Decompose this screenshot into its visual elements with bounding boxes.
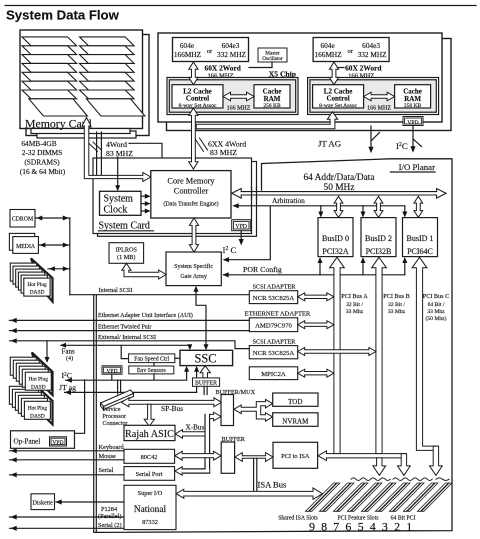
diskette wire xyxy=(56,501,124,503)
ISA Bus channel xyxy=(176,488,322,500)
6XX bus horizontal channel from card2 xyxy=(196,112,338,129)
svg-text:BusID 1: BusID 1 xyxy=(407,234,434,243)
adapter arrow AMD to PCI A xyxy=(298,321,334,329)
svg-text:Serial Port: Serial Port xyxy=(136,471,163,478)
DIMM slat col1 row1 xyxy=(22,37,77,46)
bus arrow 50MHz to BusID 1 xyxy=(414,196,423,217)
DASD stack 1 xyxy=(10,263,36,281)
SP-Bus channel xyxy=(121,398,221,407)
system card front xyxy=(93,158,252,234)
DIMM slat col1 row4 xyxy=(22,63,77,72)
svg-text:4: 4 xyxy=(370,520,376,534)
DASD stack 3 flag xyxy=(32,382,53,424)
Diskette box xyxy=(31,494,55,510)
IPLROS box xyxy=(109,243,144,264)
svg-text:PCI Bus A: PCI Bus A xyxy=(341,293,368,300)
arbitration drops to BusID boxes xyxy=(320,206,322,215)
svg-text:33 Mhz: 33 Mhz xyxy=(388,309,406,315)
svg-text:2: 2 xyxy=(394,520,400,534)
L2 Cache Control box card1 xyxy=(172,85,223,108)
svg-text:166 MHZ: 166 MHZ xyxy=(348,73,374,80)
slot drop arrow C xyxy=(430,446,443,475)
svg-text:CDROM: CDROM xyxy=(12,217,33,223)
svg-text:System Specific: System Specific xyxy=(174,263,213,270)
slot 5 xyxy=(362,483,393,511)
svg-text:64MB-4GB: 64MB-4GB xyxy=(21,139,56,148)
Internal SCSI wire xyxy=(70,294,250,296)
I/O Planar box xyxy=(95,159,452,533)
wire 60X-2 label stub xyxy=(339,67,345,69)
60X bus arrow card2 xyxy=(329,62,338,85)
DIMM slat col1 bottom xyxy=(29,99,88,116)
POR risers into BusID boxes xyxy=(319,260,321,275)
svg-text:National: National xyxy=(134,505,167,515)
svg-text:Mouse: Mouse xyxy=(99,453,117,460)
serial2 wire xyxy=(10,527,125,529)
CPU box card2 604e/604e3 xyxy=(313,38,389,62)
VPD box on processor card xyxy=(403,117,423,126)
166 MHZ cache bus arrow card1 xyxy=(223,92,254,101)
VPD box (op-panel) xyxy=(50,437,67,446)
svg-text:MEDIA: MEDIA xyxy=(16,244,36,250)
svg-text:Service: Service xyxy=(103,407,121,413)
svg-text:Super I/O: Super I/O xyxy=(138,490,163,497)
svg-text:166 MHZ: 166 MHZ xyxy=(367,105,391,111)
memory bus 4Word channel to CMC xyxy=(82,118,151,182)
svg-text:604e3: 604e3 xyxy=(222,41,240,50)
adapter arrow NCR1 to PCI A xyxy=(298,293,334,301)
svg-text:(SDRAMS): (SDRAMS) xyxy=(24,157,60,166)
svg-text:Arbitration: Arbitration xyxy=(272,196,305,205)
svg-text:Core Memory: Core Memory xyxy=(167,177,215,186)
svg-text:NCR 53C825A: NCR 53C825A xyxy=(253,295,295,302)
DIMM slat col2 row7 xyxy=(80,90,135,99)
slot 3 xyxy=(390,483,421,511)
system card edges crossing bus xyxy=(251,187,253,200)
svg-text:or: or xyxy=(207,48,213,55)
adapter arrow NCR2 to PCI B xyxy=(298,348,376,356)
System Clock to CMC arrows xyxy=(141,195,148,197)
svg-text:604e3: 604e3 xyxy=(362,41,380,50)
keyboard wire xyxy=(10,450,125,452)
env sensor wires xyxy=(153,363,155,366)
svg-text:System Data Flow: System Data Flow xyxy=(6,8,120,23)
svg-text:8-way Set Assoc: 8-way Set Assoc xyxy=(319,103,357,109)
Fan Speed Ctrl box xyxy=(129,354,175,363)
SP-Bus drop to Rajah xyxy=(144,404,154,426)
PCI bottom horizontal channel xyxy=(318,451,406,461)
Super I/O box xyxy=(124,485,176,529)
JT AG wire xyxy=(370,126,372,150)
fan speed ctrl to SSC stub xyxy=(175,357,180,359)
svg-text:DASD: DASD xyxy=(30,413,45,419)
svg-text:33 Mhz: 33 Mhz xyxy=(346,309,364,315)
svg-text:7: 7 xyxy=(333,520,339,534)
adapter arrow MPIC2A to PCI A xyxy=(298,369,334,377)
Core Memory Controller box xyxy=(151,171,231,218)
svg-text:ETHERNET ADAPTER: ETHERNET ADAPTER xyxy=(245,311,311,318)
DASD1 wire xyxy=(48,268,70,270)
IPLROS to gate array elbow arrow xyxy=(122,263,166,279)
NVRAM box xyxy=(273,413,318,427)
svg-text:(1 MB): (1 MB) xyxy=(117,254,135,261)
svg-text:Control: Control xyxy=(326,95,349,103)
svg-text:Serial: Serial xyxy=(99,467,114,474)
DIMM slat col2 row3 xyxy=(80,55,135,64)
NCR 53C825A box 1 xyxy=(249,291,297,304)
svg-text:PCI Bus B: PCI Bus B xyxy=(383,293,409,300)
svg-text:Gate Array: Gate Array xyxy=(180,274,207,280)
svg-text:60X 2Word: 60X 2Word xyxy=(345,63,382,72)
peripheral bus vertical xyxy=(69,218,71,295)
svg-text:I2 C: I2 C xyxy=(223,245,237,255)
service processor connector bar xyxy=(101,390,134,407)
DIMM slat col2 row4 xyxy=(80,63,135,72)
wire 4Word label right xyxy=(129,143,162,157)
DIMM slat col2 row1 xyxy=(80,37,135,46)
svg-text:Env Sensors: Env Sensors xyxy=(137,368,167,374)
svg-text:2-32 DIMMS: 2-32 DIMMS xyxy=(22,148,62,157)
DIMM slat col2 row6 xyxy=(80,81,135,90)
DASD stack 2 xyxy=(10,357,36,375)
Env Sensors box xyxy=(129,366,174,374)
system card shadow xyxy=(98,162,257,237)
svg-text:(Data Transfer Engine): (Data Transfer Engine) xyxy=(163,201,218,208)
svg-text:ISA Bus: ISA Bus xyxy=(258,480,288,490)
svg-text:332 MHZ: 332 MHZ xyxy=(358,50,388,59)
I2C wire from VPD xyxy=(412,126,414,150)
memory bus leg 2 (back card) xyxy=(96,132,98,175)
X-Bus to 80C42 / BUFFER channel xyxy=(175,451,221,460)
svg-text:Diskette: Diskette xyxy=(33,501,54,507)
svg-text:BUFFER: BUFFER xyxy=(195,381,217,387)
slot drop arrow right end xyxy=(398,454,411,476)
svg-text:SP-Bus: SP-Bus xyxy=(161,404,183,413)
svg-text:Fan Speed Ctrl: Fan Speed Ctrl xyxy=(134,356,169,362)
svg-text:System: System xyxy=(104,194,134,205)
svg-text:PCI Bus C: PCI Bus C xyxy=(423,293,449,300)
serial wire xyxy=(10,474,125,476)
master oscillator box xyxy=(258,48,287,62)
svg-text:IPLROS: IPLROS xyxy=(116,246,138,253)
X-Bus to Serial Port elbow xyxy=(175,467,182,476)
Rajah ASIC box xyxy=(124,425,175,440)
svg-text:Rajah ASIC: Rajah ASIC xyxy=(125,429,174,440)
BUFFER to SSC arrow xyxy=(200,366,210,378)
svg-text:RAM: RAM xyxy=(404,95,421,103)
svg-text:VPD: VPD xyxy=(52,440,63,446)
slot 6 xyxy=(348,483,379,511)
wires I2C line down to service processor connector xyxy=(117,380,119,394)
External/Internal SCSI wire xyxy=(10,341,250,349)
svg-text:(4): (4) xyxy=(66,355,73,362)
X-Bus to Rajah arrow xyxy=(175,430,205,439)
svg-text:JT ag: JT ag xyxy=(59,383,76,392)
PCI to ISA box xyxy=(273,442,318,468)
X5 chip module card1 xyxy=(167,78,298,115)
slot 4 xyxy=(376,483,407,511)
svg-text:32 Bit /: 32 Bit / xyxy=(388,302,405,308)
svg-text:83 MHZ: 83 MHZ xyxy=(210,148,237,157)
CMC to gate array arrow xyxy=(189,218,198,252)
X-Bus to BUFFER/MUX arrow xyxy=(210,412,221,421)
svg-text:80C42: 80C42 xyxy=(141,454,158,461)
bus arrow 50MHz to BusID 2 xyxy=(374,196,383,217)
svg-text:256 KB: 256 KB xyxy=(263,103,281,109)
svg-text:JT AG: JT AG xyxy=(318,139,342,149)
svg-text:Hot Plug: Hot Plug xyxy=(27,282,47,288)
svg-text:332 MHZ: 332 MHZ xyxy=(217,50,247,59)
svg-text:NVRAM: NVRAM xyxy=(282,418,309,426)
svg-text:60X 2Word: 60X 2Word xyxy=(205,63,242,72)
I2C wire arbitration to gate array xyxy=(225,207,270,260)
svg-text:I2C: I2C xyxy=(396,141,408,151)
DIMM slat col2 row2 xyxy=(80,46,135,55)
svg-text:DASD: DASD xyxy=(31,384,46,390)
svg-text:NCR 53C825A: NCR 53C825A xyxy=(253,350,295,357)
BUFFER/MUX box xyxy=(221,395,234,426)
svg-text:BusID 2: BusID 2 xyxy=(365,234,392,243)
svg-text:BusID 0: BusID 0 xyxy=(322,234,349,243)
L2 Cache Control box card2 xyxy=(313,85,364,108)
BusID 2 PCI32B box xyxy=(361,218,396,257)
svg-text:8: 8 xyxy=(321,520,327,534)
Ethernet Twisted Pair wire xyxy=(10,330,250,332)
slot 2 xyxy=(404,483,435,511)
svg-text:256 KB: 256 KB xyxy=(404,103,422,109)
svg-text:3: 3 xyxy=(382,520,388,534)
svg-text:TOD: TOD xyxy=(288,398,302,406)
MPIC2A box xyxy=(249,367,297,380)
6XX bus vertical arrow into CMC xyxy=(189,108,198,169)
top rule xyxy=(5,5,476,7)
svg-text:Processor: Processor xyxy=(103,414,126,420)
svg-text:Clock: Clock xyxy=(104,205,128,216)
X5 chip module card2 xyxy=(308,78,439,115)
svg-text:X-Bus: X-Bus xyxy=(186,423,205,431)
svg-text:64 Addr/Data/Data: 64 Addr/Data/Data xyxy=(303,173,375,183)
Ethernet AUI wire xyxy=(10,319,250,321)
PCI Bus C channel xyxy=(412,257,438,450)
svg-text:AMD79C970: AMD79C970 xyxy=(255,323,292,330)
svg-text:6: 6 xyxy=(345,520,351,534)
80C42 box xyxy=(124,449,175,463)
svg-text:604e: 604e xyxy=(321,41,335,50)
DIMM slat col1 row2 xyxy=(22,46,77,55)
P1284 wire xyxy=(10,516,125,518)
svg-text:PCI64C: PCI64C xyxy=(407,247,433,256)
CDROM box xyxy=(10,210,35,228)
mouse wire xyxy=(10,459,125,461)
MEDIA stack xyxy=(9,233,34,250)
svg-text:Hot Plug: Hot Plug xyxy=(28,406,48,412)
svg-text:166MHZ: 166MHZ xyxy=(315,50,343,59)
svg-text:604e: 604e xyxy=(180,41,194,50)
BUFFER2 to PCI-to-ISA channel xyxy=(235,453,273,462)
Cache RAM box card2 xyxy=(395,85,431,108)
POR Config wire xyxy=(224,274,405,276)
64 Addr/Data/Data 50MHz bus xyxy=(232,189,446,199)
TOD/NVRAM channel xyxy=(234,399,273,421)
svg-text:MPIC2A: MPIC2A xyxy=(261,371,286,378)
svg-text:Controller: Controller xyxy=(174,187,209,196)
BUFFER to BUFFER/MUX wires xyxy=(203,386,205,394)
Cache RAM box card1 xyxy=(254,85,290,108)
DASD stack 1 flag xyxy=(31,258,53,301)
slot 7 xyxy=(334,483,365,511)
slot 9 xyxy=(306,483,337,511)
I2C wire xyxy=(66,379,187,381)
svg-text:Ethernet Twisted Pair: Ethernet Twisted Pair xyxy=(98,324,151,331)
svg-text:External/ Internal SCSI: External/ Internal SCSI xyxy=(98,334,156,341)
svg-text:PCI to ISA: PCI to ISA xyxy=(281,453,310,460)
processor card front xyxy=(158,33,442,122)
X-Bus vertical channel xyxy=(206,415,210,473)
wire label to System Clock xyxy=(117,157,119,189)
svg-text:Ethernet Adapter Unit Interfac: Ethernet Adapter Unit Interface (AUI) xyxy=(98,312,193,319)
svg-text:I/O Planar: I/O Planar xyxy=(399,162,435,172)
PCI Bus A channel xyxy=(330,257,345,453)
long vertical wires to bottom xyxy=(93,295,95,533)
svg-text:DASD: DASD xyxy=(30,290,45,296)
svg-text:166 MHZ: 166 MHZ xyxy=(208,73,234,80)
processor card back shadow xyxy=(167,39,452,131)
AMD79C970 box xyxy=(249,318,297,332)
svg-text:(50 Mhz): (50 Mhz) xyxy=(426,315,447,322)
VPD box (planar) xyxy=(102,366,122,374)
svg-text:VPD: VPD xyxy=(235,224,247,230)
svg-text:9: 9 xyxy=(309,520,315,534)
VPD box on system card xyxy=(232,220,251,231)
slot drop arrow A/B xyxy=(373,458,386,475)
JT ag wire xyxy=(65,391,197,393)
svg-text:166MHZ: 166MHZ xyxy=(174,50,202,59)
DIMM slat col1 row3 xyxy=(22,55,77,64)
6XX label hook xyxy=(196,138,208,152)
wire 60X label to master oscillator xyxy=(249,67,272,69)
BUFFER box 2 xyxy=(221,442,234,473)
svg-text:SCSI ADAPTER: SCSI ADAPTER xyxy=(253,338,297,345)
CDROM wire xyxy=(36,217,70,219)
MEDIA wire xyxy=(39,244,70,246)
svg-text:166 MHZ: 166 MHZ xyxy=(227,105,251,111)
svg-text:Oscillator: Oscillator xyxy=(262,56,283,62)
DASD stack 2 flag xyxy=(32,353,53,396)
NCR 53C825A box 2 xyxy=(249,346,297,359)
svg-text:4Word: 4Word xyxy=(106,140,127,149)
Op-Panel box xyxy=(11,431,75,449)
svg-text:50 MHz: 50 MHz xyxy=(324,183,355,193)
svg-text:POR Config: POR Config xyxy=(243,265,282,274)
svg-text:32 Bit /: 32 Bit / xyxy=(346,302,363,308)
svg-text:Internal SCSI: Internal SCSI xyxy=(99,287,133,294)
svg-text:System Card: System Card xyxy=(99,221,150,232)
svg-text:Memory Card: Memory Card xyxy=(25,117,92,131)
gate array to SSC wire xyxy=(196,288,206,347)
wire VPD down xyxy=(240,231,242,243)
squiggle marks above slots xyxy=(351,478,390,481)
svg-text:VPD: VPD xyxy=(106,368,117,374)
svg-text:PCI32A: PCI32A xyxy=(322,247,348,256)
svg-text:1: 1 xyxy=(406,520,412,534)
DASD stack 3 xyxy=(9,386,35,404)
slot 1 xyxy=(418,483,449,511)
bus arrow 50MHz to BusID 0 xyxy=(334,196,343,217)
CPU box card1 604e/604e3 xyxy=(173,38,249,62)
DIMM slat col1 row7 xyxy=(22,90,77,99)
svg-text:Control: Control xyxy=(186,95,209,103)
svg-text:SSC: SSC xyxy=(194,352,216,366)
PCI-to-ISA to ISA bus channel xyxy=(253,458,255,490)
svg-text:or: or xyxy=(347,48,353,55)
TOD box xyxy=(273,393,318,406)
fans wire xyxy=(61,345,190,347)
SSC box xyxy=(180,350,233,365)
svg-text:X5 Chip: X5 Chip xyxy=(269,69,296,78)
Op-Panel wire to I2C xyxy=(58,380,85,437)
4Word label hook xyxy=(89,142,102,152)
svg-text:P1284: P1284 xyxy=(101,506,118,513)
166 MHZ cache bus arrow card2 xyxy=(364,92,395,101)
svg-text:64 Bit /: 64 Bit / xyxy=(428,302,445,308)
BusID 0 PCI32A box xyxy=(318,218,353,257)
svg-text:33 Mhz: 33 Mhz xyxy=(427,309,445,315)
svg-text:SCSI ADAPTER: SCSI ADAPTER xyxy=(253,284,297,291)
System Specific Gate Array box xyxy=(166,252,221,286)
DIMM slat col1 row5 xyxy=(22,72,77,81)
svg-text:83 MHZ: 83 MHZ xyxy=(106,149,133,158)
svg-text:87332: 87332 xyxy=(142,519,158,526)
svg-text:(16 & 64 Mbit): (16 & 64 Mbit) xyxy=(20,167,66,176)
svg-text:5: 5 xyxy=(358,520,364,534)
BusID 1 PCI64C box xyxy=(403,218,438,257)
BUFFER box (SSC) xyxy=(193,378,220,386)
DIMM slat col2 row5 xyxy=(80,72,135,81)
svg-text:Op-Panel: Op-Panel xyxy=(14,437,41,445)
60X bus arrow card1 xyxy=(189,62,198,85)
svg-text:Hot Plug: Hot Plug xyxy=(29,376,49,382)
drop to DASD stack 2 xyxy=(46,341,48,361)
svg-text:8-way Set Assoc: 8-way Set Assoc xyxy=(179,103,217,109)
svg-text:RAM: RAM xyxy=(264,95,281,103)
svg-text:Keyboard: Keyboard xyxy=(99,444,125,451)
DIMM slat col2 bottom xyxy=(86,99,144,116)
svg-text:PCI32B: PCI32B xyxy=(366,247,392,256)
Serial Port box xyxy=(124,467,175,481)
arbitration wire xyxy=(235,205,405,207)
slot 8 xyxy=(320,483,351,511)
memory card back shadow xyxy=(26,35,149,136)
PCI Bus B channel xyxy=(372,257,387,453)
memory card front xyxy=(20,30,143,129)
DIMM slat col1 row6 xyxy=(22,81,77,90)
System Clock box xyxy=(100,191,142,215)
